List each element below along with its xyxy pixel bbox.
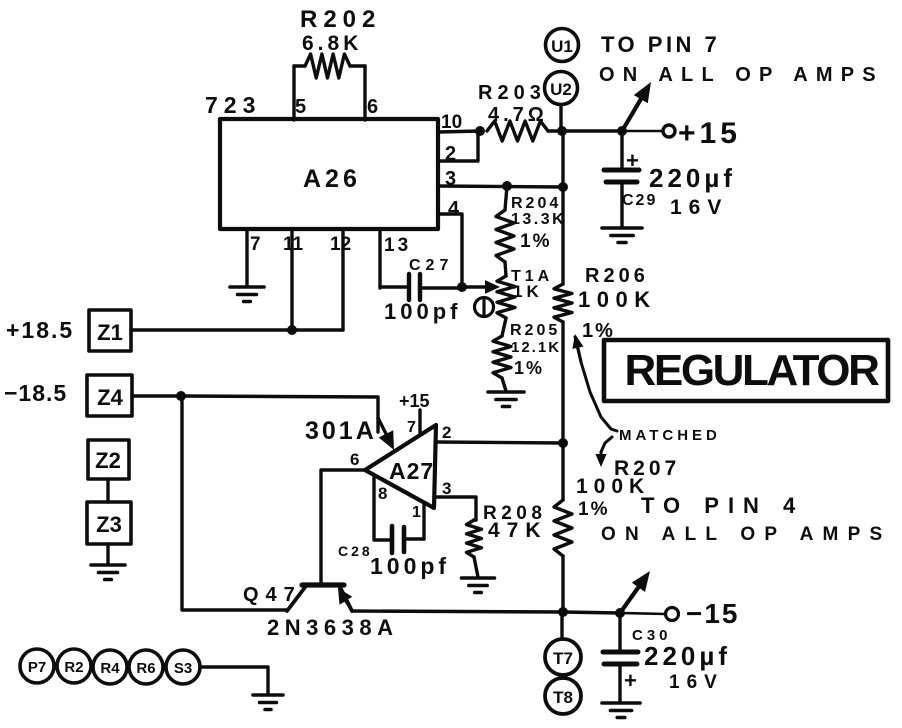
- terminal S3: [166, 650, 200, 684]
- svg-text:12.1K: 12.1K: [511, 339, 561, 356]
- svg-text:1: 1: [412, 504, 421, 521]
- label T1A: [511, 268, 553, 301]
- label C28: [338, 543, 450, 579]
- label -15: [686, 598, 740, 629]
- terminal R2: [57, 649, 91, 683]
- wiper arrow T1A: [462, 280, 500, 294]
- pin 11 label: [283, 234, 304, 255]
- svg-text:10: 10: [441, 112, 462, 133]
- wire Z4 right: [132, 394, 181, 397]
- resistor R204: [496, 186, 514, 276]
- svg-text:4: 4: [448, 198, 460, 220]
- label ON ALL OP AMPS: [599, 64, 884, 86]
- svg-text:2: 2: [445, 143, 456, 165]
- pin 2 label: [445, 143, 456, 165]
- wire Z2-Z3: [106, 479, 109, 502]
- svg-text:R204: R204: [511, 195, 561, 212]
- terminal R4: [93, 650, 127, 684]
- svg-text:13.3K: 13.3K: [511, 211, 566, 228]
- terminal R6: [129, 650, 163, 684]
- svg-text:R6: R6: [136, 660, 155, 677]
- svg-text:100K: 100K: [578, 287, 657, 312]
- wire op-amp output: [321, 470, 365, 583]
- svg-text:+15: +15: [399, 391, 430, 411]
- terminal T7: [545, 639, 581, 675]
- arrowhead Q47 collector: [338, 588, 352, 609]
- svg-text:C27: C27: [409, 257, 453, 274]
- resistor R202: [294, 54, 365, 120]
- label R207: [576, 457, 680, 520]
- svg-text:1%: 1%: [520, 231, 551, 252]
- potentiometer T1A: [497, 276, 515, 318]
- svg-text:1K: 1K: [513, 282, 543, 301]
- ground R208: [462, 578, 495, 593]
- wire Z3 down: [106, 544, 109, 564]
- wire Z1 to pins 11-12: [131, 328, 343, 331]
- svg-text:220µf: 220µf: [649, 163, 736, 193]
- ground Z3: [91, 565, 125, 580]
- svg-text:723: 723: [205, 92, 261, 118]
- svg-text:12: 12: [330, 234, 351, 255]
- resistor R208: [467, 520, 482, 577]
- svg-text:R4: R4: [100, 660, 120, 677]
- arrowhead matched up: [572, 334, 583, 362]
- label MATCHED: [619, 427, 721, 444]
- svg-text:Q47: Q47: [243, 584, 302, 606]
- svg-text:REGULATOR: REGULATOR: [625, 346, 880, 395]
- svg-text:U1: U1: [551, 37, 573, 56]
- node pin10: [475, 126, 485, 136]
- op-amp pin8 lead: [374, 478, 390, 540]
- pin 10 wire: [438, 131, 480, 132]
- label op-amp pin 6: [350, 450, 359, 469]
- svg-text:1%: 1%: [578, 499, 609, 520]
- arrow to op amp supply neg: [620, 571, 650, 613]
- op-amp A27: [365, 425, 436, 508]
- terminal Z3 box: [87, 502, 131, 544]
- terminal U1: [546, 29, 579, 62]
- svg-text:C28: C28: [338, 543, 373, 559]
- svg-text:100pf: 100pf: [384, 299, 461, 324]
- node -15 junction: [558, 607, 568, 617]
- arrow to op amp supply: [622, 82, 651, 131]
- wire op-amp pin2: [437, 442, 563, 443]
- resistor R203: [487, 121, 548, 141]
- label Q47: [243, 584, 302, 606]
- svg-text:U2: U2: [550, 80, 572, 99]
- ground S3: [253, 695, 283, 710]
- svg-text:3: 3: [442, 479, 451, 498]
- pin 4 label: [448, 198, 460, 220]
- svg-text:13: 13: [384, 235, 411, 256]
- svg-text:100pf: 100pf: [370, 553, 450, 579]
- svg-text:6.8K: 6.8K: [302, 32, 362, 55]
- pin 2 wire: [438, 133, 478, 161]
- node Z4 junction: [176, 391, 186, 401]
- svg-text:4.7Ω: 4.7Ω: [488, 104, 548, 126]
- svg-text:16V: 16V: [669, 672, 724, 693]
- svg-text:−18.5: −18.5: [4, 380, 67, 406]
- callout curve matched: [575, 337, 617, 431]
- wire to op-amp pin4: [181, 396, 378, 432]
- label R208: [483, 503, 548, 542]
- pin 10 label: [441, 112, 462, 133]
- label op-amp pin 2: [442, 423, 451, 442]
- label -18.5: [4, 380, 67, 406]
- capacitor C28: [392, 526, 424, 553]
- node pin11 junction: [287, 325, 297, 335]
- label R203: [478, 82, 548, 126]
- svg-text:301A: 301A: [305, 417, 377, 445]
- svg-text:T8: T8: [553, 688, 573, 707]
- node C29 junction: [617, 126, 627, 136]
- svg-text:R205: R205: [510, 322, 560, 339]
- label op-amp pin 7: [407, 419, 416, 436]
- terminal P7: [20, 649, 54, 683]
- pin 12 label: [330, 234, 351, 255]
- label op-amp pin 1: [412, 504, 421, 521]
- svg-text:6: 6: [367, 96, 378, 118]
- svg-text:+: +: [624, 668, 637, 693]
- label A27: [389, 458, 434, 484]
- ground C30: [602, 703, 640, 718]
- svg-text:+18.5: +18.5: [6, 317, 74, 343]
- svg-text:1%: 1%: [514, 358, 544, 378]
- wire U2 stub: [559, 105, 562, 131]
- pin 5 label: [295, 96, 306, 118]
- label C27: [384, 257, 461, 324]
- IC U-A26 box 723: [220, 119, 438, 229]
- wire emitter to -15 node: [352, 611, 563, 612]
- label A26: [303, 165, 361, 193]
- title box REGULATOR: [604, 340, 888, 401]
- pin 3 label: [445, 168, 456, 190]
- pin 13 wire: [380, 232, 407, 288]
- wire op-amp pin3: [436, 497, 476, 520]
- terminal Z2 box: [88, 440, 129, 479]
- polarity + C29: [626, 148, 639, 173]
- pin 7 wire: [245, 229, 248, 286]
- ground pin7: [230, 287, 264, 302]
- label REGULATOR: [625, 346, 880, 395]
- label 301A: [305, 417, 377, 445]
- label TO PIN 4: [641, 493, 804, 518]
- label R205: [510, 322, 561, 378]
- terminal T8: [545, 678, 581, 714]
- polarity + C30: [624, 668, 637, 693]
- label R204: [511, 195, 566, 252]
- svg-text:T7: T7: [553, 649, 573, 668]
- svg-text:R206: R206: [585, 265, 649, 287]
- svg-text:TO PIN 7: TO PIN 7: [601, 32, 720, 57]
- terminal -15 circle: [666, 608, 679, 621]
- svg-text:P7: P7: [28, 659, 46, 676]
- svg-text:Z3: Z3: [96, 512, 122, 537]
- svg-text:−15: −15: [686, 598, 740, 629]
- node rail pin3: [558, 182, 568, 192]
- wire S3 to ground: [200, 667, 268, 694]
- resistor R206: [554, 284, 572, 322]
- svg-text:Z4: Z4: [97, 385, 123, 410]
- wire main rail mid: [561, 322, 564, 500]
- capacitor C27: [409, 274, 462, 300]
- svg-text:S3: S3: [174, 660, 192, 677]
- mark circled-1: [475, 298, 494, 317]
- capacitor C30: [603, 613, 638, 702]
- svg-text:Z2: Z2: [95, 448, 121, 473]
- svg-text:2: 2: [442, 423, 451, 442]
- svg-text:R203: R203: [478, 82, 546, 104]
- svg-text:6: 6: [350, 450, 359, 469]
- wire Z4 down: [182, 396, 287, 610]
- node +15 junction: [557, 126, 567, 136]
- wire -15: [563, 612, 620, 613]
- label 723: [205, 92, 261, 118]
- svg-text:TO PIN 4: TO PIN 4: [641, 493, 804, 518]
- label ON ALL OP AMPS 2: [601, 524, 891, 545]
- svg-text:+15: +15: [678, 117, 741, 150]
- svg-text:11: 11: [283, 234, 304, 255]
- svg-text:MATCHED: MATCHED: [619, 427, 721, 444]
- pin 11 wire: [290, 229, 293, 330]
- svg-text:16V: 16V: [670, 196, 728, 219]
- label op-amp pin 3: [442, 479, 451, 498]
- pin 12 wire: [341, 229, 344, 330]
- terminal Z4 box: [87, 375, 132, 416]
- svg-text:8: 8: [378, 484, 387, 503]
- wire T7 stub: [560, 613, 563, 639]
- svg-text:R2: R2: [64, 659, 83, 676]
- wire R203 to +15 node: [548, 129, 562, 132]
- label +18.5: [6, 317, 74, 343]
- ground R205: [488, 392, 524, 407]
- arrowhead pin4: [378, 418, 394, 450]
- op-amp pin7 +15 lead: [418, 410, 421, 433]
- pin 3 wire: [438, 186, 563, 187]
- wire to -15 terminal: [620, 613, 666, 614]
- label C30 value: [632, 627, 731, 693]
- label C29 value: [622, 163, 736, 219]
- capacitor C29: [604, 131, 639, 227]
- svg-text:47K: 47K: [488, 519, 548, 542]
- label 2N3638A: [267, 615, 398, 640]
- wire main rail lower: [561, 556, 564, 612]
- svg-text:7: 7: [250, 234, 261, 255]
- svg-text:ON ALL OP AMPS: ON ALL OP AMPS: [599, 64, 884, 86]
- svg-text:Z1: Z1: [97, 320, 123, 345]
- ground C29: [602, 228, 642, 243]
- node R204 top: [502, 181, 512, 191]
- pin 4 wire: [438, 214, 462, 287]
- wire +15 rail: [562, 129, 622, 132]
- pin 7 label: [250, 234, 261, 255]
- svg-text:100K: 100K: [576, 475, 650, 498]
- transistor Q47: [287, 585, 352, 611]
- wire to +15 terminal: [622, 130, 662, 133]
- terminal Z1 box: [89, 310, 131, 351]
- svg-text:2N3638A: 2N3638A: [267, 615, 398, 640]
- label R202 value: [300, 6, 381, 55]
- node rail op-amp out: [558, 438, 568, 448]
- svg-text:A26: A26: [303, 165, 361, 193]
- svg-text:A27: A27: [389, 458, 434, 484]
- label R206: [578, 265, 657, 342]
- resistor R207: [554, 500, 572, 556]
- svg-text:3: 3: [445, 168, 456, 190]
- node C30 junction: [615, 608, 625, 618]
- pin 6 label: [367, 96, 378, 118]
- svg-text:220µf: 220µf: [644, 641, 731, 671]
- resistor R205: [493, 318, 511, 391]
- pin 13 label: [384, 235, 411, 256]
- terminal +15 circle: [663, 125, 675, 137]
- svg-text:+: +: [626, 148, 639, 173]
- label TO PIN 7: [601, 32, 720, 57]
- label op-amp +15: [399, 391, 430, 411]
- arrow matched down: [595, 437, 612, 467]
- svg-text:ON ALL OP AMPS: ON ALL OP AMPS: [601, 524, 891, 545]
- label +15: [678, 117, 741, 150]
- node wiper junction: [457, 282, 467, 292]
- label op-amp pin 8: [378, 484, 387, 503]
- svg-text:5: 5: [295, 96, 306, 118]
- svg-text:C29: C29: [622, 192, 657, 209]
- svg-text:7: 7: [407, 419, 416, 436]
- terminal U2: [545, 72, 578, 105]
- svg-text:R202: R202: [300, 6, 381, 33]
- op-amp pin1 lead: [422, 504, 425, 539]
- wire main rail upper: [561, 131, 564, 284]
